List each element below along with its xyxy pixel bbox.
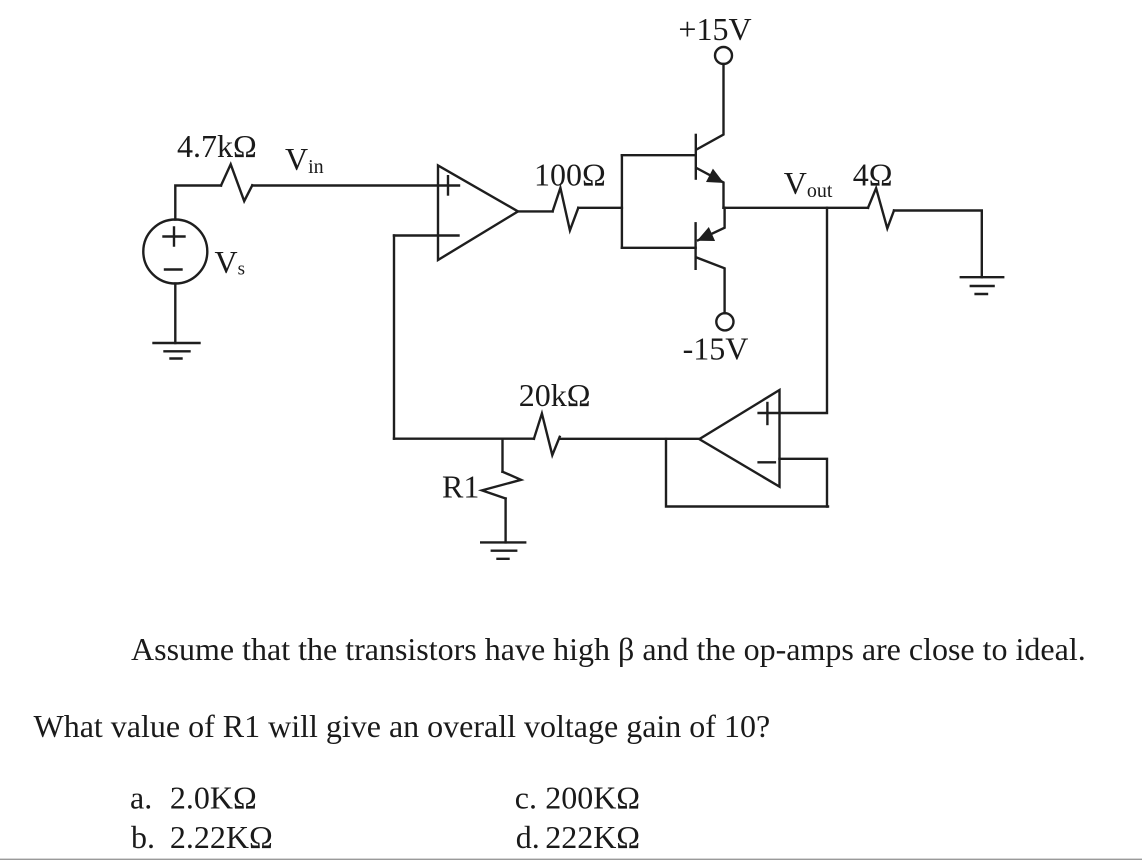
Q2 collector lead [696,257,724,313]
+15V terminal circle [715,47,732,64]
svg-text:2.22KΩ: 2.22KΩ [170,819,273,855]
svg-text:Assume that the transistors ha: Assume that the transistors have high β … [131,631,1086,667]
-15V terminal circle [716,313,733,330]
wire U2 output [560,438,700,440]
Vs minus polarity mark [165,268,182,270]
transistor Q2 base bar [694,223,696,268]
U1 minus input wire [394,234,459,236]
svg-text:b.: b. [131,819,155,855]
svg-text:-15V: -15V [683,330,749,366]
wire Vs bottom to ground [174,284,176,344]
Q2 emitter arrow [698,228,714,241]
svg-text:2.0KΩ: 2.0KΩ [170,779,257,815]
output node wire Vout [724,207,869,209]
wire node Vin to op-amp U1 plus input [252,184,459,186]
Q2 emitter lead [698,208,725,241]
Vs plus polarity mark [164,228,185,246]
wire U1 inverting input feedback vertical [393,236,395,439]
svg-text:+15V: +15V [678,11,751,47]
resistor 4 ohm zigzag [868,188,894,228]
Q1 emitter lead [696,168,723,208]
U2 minus input mark [759,461,775,463]
wire node to resistor R1 [501,439,503,472]
resistor 100 zigzag [553,188,579,231]
svg-text:20kΩ: 20kΩ [519,377,591,413]
base bus vertical [621,155,623,248]
resistor R1 zigzag [482,472,521,499]
svg-text:Vout: Vout [784,165,833,202]
resistor 20k zigzag [534,414,560,456]
resistor 4.7k zigzag [221,164,252,201]
Q1 emitter arrow [707,170,723,183]
transistor Q1 base bar [695,135,697,179]
ground below Vs [154,343,200,359]
ground below R1 [481,542,525,558]
wire U2 feedback bottom [666,439,828,506]
U1 plus input mark [447,176,449,194]
wire feedback horizontal to 20k [394,438,534,440]
wire 4 ohm to right ground [894,211,982,278]
wire Vs top to resistor 4.7k [175,186,221,220]
wire 100 ohm to base bus [578,207,622,209]
svg-text:Vin: Vin [285,141,324,178]
svg-text:4.7kΩ: 4.7kΩ [177,128,257,164]
wire U1 output [518,210,553,212]
Q1 collector lead [697,64,724,150]
wire base bus to Q2 base [622,247,696,249]
svg-text:R1: R1 [442,469,479,505]
svg-text:200KΩ: 200KΩ [545,779,640,815]
op-amp U1 [438,165,518,260]
svg-text:100Ω: 100Ω [534,156,606,192]
svg-text:222KΩ: 222KΩ [545,819,640,855]
wire R1 to ground [504,499,506,543]
U2 plus input mark [766,403,768,424]
svg-text:What value of R1 will give an: What value of R1 will give an overall vo… [34,708,771,744]
svg-text:Vs: Vs [215,244,246,280]
op-amp U2 [699,390,779,487]
svg-text:a.: a. [130,779,152,815]
wire Vout node to U2 plus input [759,208,827,413]
bottom page edge line [0,859,1142,860]
svg-text:d.: d. [516,819,540,855]
voltage source Vs [143,220,207,284]
wire base bus to Q1 base [622,154,696,156]
svg-text:4Ω: 4Ω [853,157,893,193]
ground right [961,277,1003,294]
U2 minus input wire [780,459,828,507]
svg-text:c.: c. [515,779,537,815]
